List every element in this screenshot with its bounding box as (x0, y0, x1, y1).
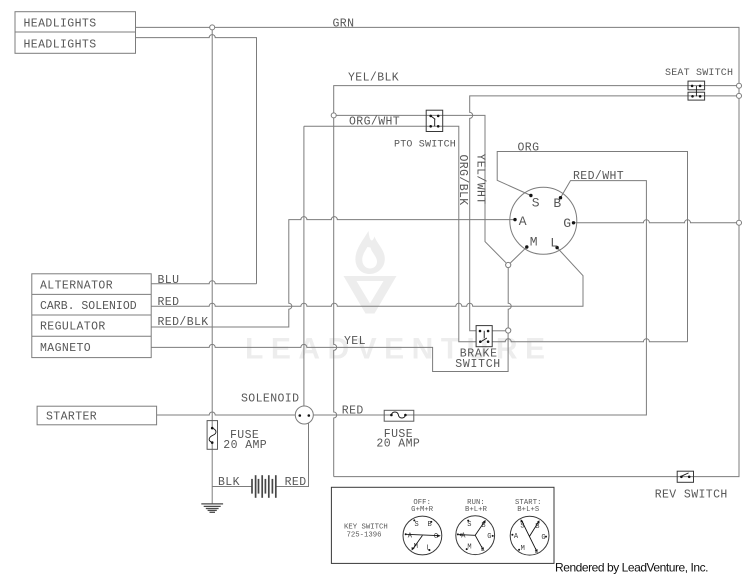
node seat switch bottom (737, 93, 742, 98)
svg-text:ORG/BLK: ORG/BLK (456, 155, 469, 206)
svg-text:PTO SWITCH: PTO SWITCH (394, 139, 456, 150)
fuse F1 box (207, 421, 217, 450)
svg-text:RED/BLK: RED/BLK (158, 316, 209, 329)
svg-text:G: G (563, 216, 571, 231)
svg-text:SOLENOID: SOLENOID (241, 393, 299, 406)
wire vertical x212 from GRN junction to fuse (211, 30, 213, 428)
wire brake lower right to ORG vertical (492, 339, 687, 342)
node seat switch top (737, 83, 742, 88)
wire RED/WHT from B terminal down to fuse (405, 181, 646, 415)
wire BLU alternator (151, 281, 256, 284)
svg-text:RED: RED (158, 296, 180, 309)
svg-text:RED: RED (342, 405, 364, 418)
svg-text:B: B (553, 196, 561, 211)
svg-text:STARTER: STARTER (46, 410, 97, 423)
svg-text:ALTERNATOR: ALTERNATOR (40, 279, 113, 292)
wire solenoid to fuse 2 (313, 414, 391, 416)
svg-text:B+L+R: B+L+R (465, 506, 488, 514)
svg-text:RED: RED (285, 476, 307, 489)
brake switch S3 (476, 326, 492, 347)
svg-text:G+M+R: G+M+R (411, 506, 434, 514)
key switch legend box (331, 487, 554, 563)
svg-text:A: A (519, 214, 527, 229)
svg-text:GRN: GRN (333, 18, 355, 31)
svg-text:KEY SWITCH: KEY SWITCH (344, 524, 388, 532)
svg-text:S: S (467, 521, 471, 529)
svg-text:SEAT SWITCH: SEAT SWITCH (665, 68, 733, 79)
wire YEL/BLK horizontal to seat switch (334, 86, 737, 113)
node GRN junction (210, 25, 215, 30)
svg-text:SWITCH: SWITCH (455, 358, 501, 371)
wire ORG from S terminal (497, 152, 687, 342)
pto switch S2 (426, 110, 443, 131)
wire M junction vertical between circles (508, 268, 511, 329)
wire solenoid bottom to battery (276, 423, 309, 487)
node G wire right border (737, 220, 742, 225)
svg-text:L: L (426, 544, 430, 552)
wire headlights2 + vertical to BLU (136, 35, 257, 284)
svg-text:REV SWITCH: REV SWITCH (655, 488, 728, 501)
svg-text:HEADLIGHTS: HEADLIGHTS (24, 17, 97, 30)
box HEADLIGHTS 1 (15, 12, 136, 32)
svg-text:BLK: BLK (218, 476, 240, 489)
wire YEL magneto to brake junction (151, 333, 508, 372)
ground symbol (201, 504, 223, 512)
svg-text:Rendered by LeadVenture, Inc.: Rendered by LeadVenture, Inc. (555, 561, 708, 575)
legend circle RUN (456, 516, 495, 555)
legend circle OFF (403, 516, 442, 555)
svg-text:G: G (487, 533, 491, 541)
wire YEL/BLK vertical branch down to rev switch (334, 118, 337, 477)
wire G terminal to right border (575, 220, 736, 223)
svg-text:YEL/WHT: YEL/WHT (473, 154, 486, 205)
seat switch S1 (688, 81, 705, 90)
svg-text:S: S (414, 521, 418, 529)
legend circle START (510, 516, 549, 555)
box ALTERNATOR/CARB/REGULATOR/MAGNETO (32, 274, 151, 358)
fuse element squiggle (horizontal fuse F2) (391, 412, 405, 418)
terminal dots key switch (513, 194, 575, 250)
wire fuse to ground stem (211, 443, 213, 504)
svg-text:RED/WHT: RED/WHT (573, 170, 624, 183)
node ORG/WHT junction (331, 113, 336, 118)
wire GRN top + right border + bottom rev wire (136, 27, 740, 476)
svg-text:20 AMP: 20 AMP (376, 438, 420, 451)
battery B1 plates (252, 475, 276, 498)
svg-text:20 AMP: 20 AMP (223, 439, 267, 452)
svg-text:LEADVENTURE: LEADVENTURE (245, 333, 553, 366)
watermark logo flame (344, 231, 397, 314)
svg-text:MAGNETO: MAGNETO (40, 342, 91, 355)
svg-text:M: M (530, 235, 538, 250)
svg-text:B+L+S: B+L+S (517, 506, 539, 514)
rev switch S4 (677, 471, 693, 482)
box HEADLIGHTS 2 (15, 32, 136, 53)
svg-text:G: G (541, 534, 545, 542)
wire seat lower + YEL/WHT vertical to brake switch (470, 96, 737, 331)
svg-text:L: L (550, 235, 558, 250)
svg-text:HEADLIGHTS: HEADLIGHTS (24, 39, 97, 52)
box STARTER (37, 406, 157, 425)
svg-text:ORG/WHT: ORG/WHT (349, 116, 400, 129)
wire M terminal diagonal (510, 247, 526, 263)
svg-text:M: M (521, 545, 525, 553)
fuse element squiggle (vertical fuse F1) (209, 428, 216, 443)
svg-text:YEL/BLK: YEL/BLK (348, 72, 399, 85)
svg-text:REGULATOR: REGULATOR (40, 321, 106, 334)
svg-text:ORG: ORG (518, 142, 540, 155)
solenoid circle (295, 406, 313, 424)
wire RED carb soleniod to L terminal (151, 248, 583, 307)
wire ORG/WHT lower + ORG/BLK to brake switch (304, 126, 476, 342)
wire battery BLK to ground vertical (212, 486, 251, 488)
wire ORG/WHT pto top + down to M junction (336, 115, 506, 262)
wire RED/BLK regulator to A terminal (151, 217, 515, 327)
svg-text:YEL: YEL (344, 335, 366, 348)
node brake switch junction (506, 328, 511, 333)
wire starter to solenoid (157, 412, 296, 415)
watermark logo V (344, 276, 397, 314)
node M terminal junction (506, 262, 511, 267)
wire solenoid top vertical (303, 126, 305, 406)
svg-text:CARB. SOLENIOD: CARB. SOLENIOD (40, 300, 137, 313)
svg-text:BLU: BLU (158, 274, 180, 287)
svg-text:M: M (467, 544, 471, 552)
svg-text:S: S (532, 196, 540, 211)
svg-text:725-1396: 725-1396 (347, 532, 382, 540)
op key switch circle U1 (510, 187, 577, 254)
fuse F2 box (384, 410, 414, 421)
wire brake upper right to junction circle (492, 330, 506, 332)
